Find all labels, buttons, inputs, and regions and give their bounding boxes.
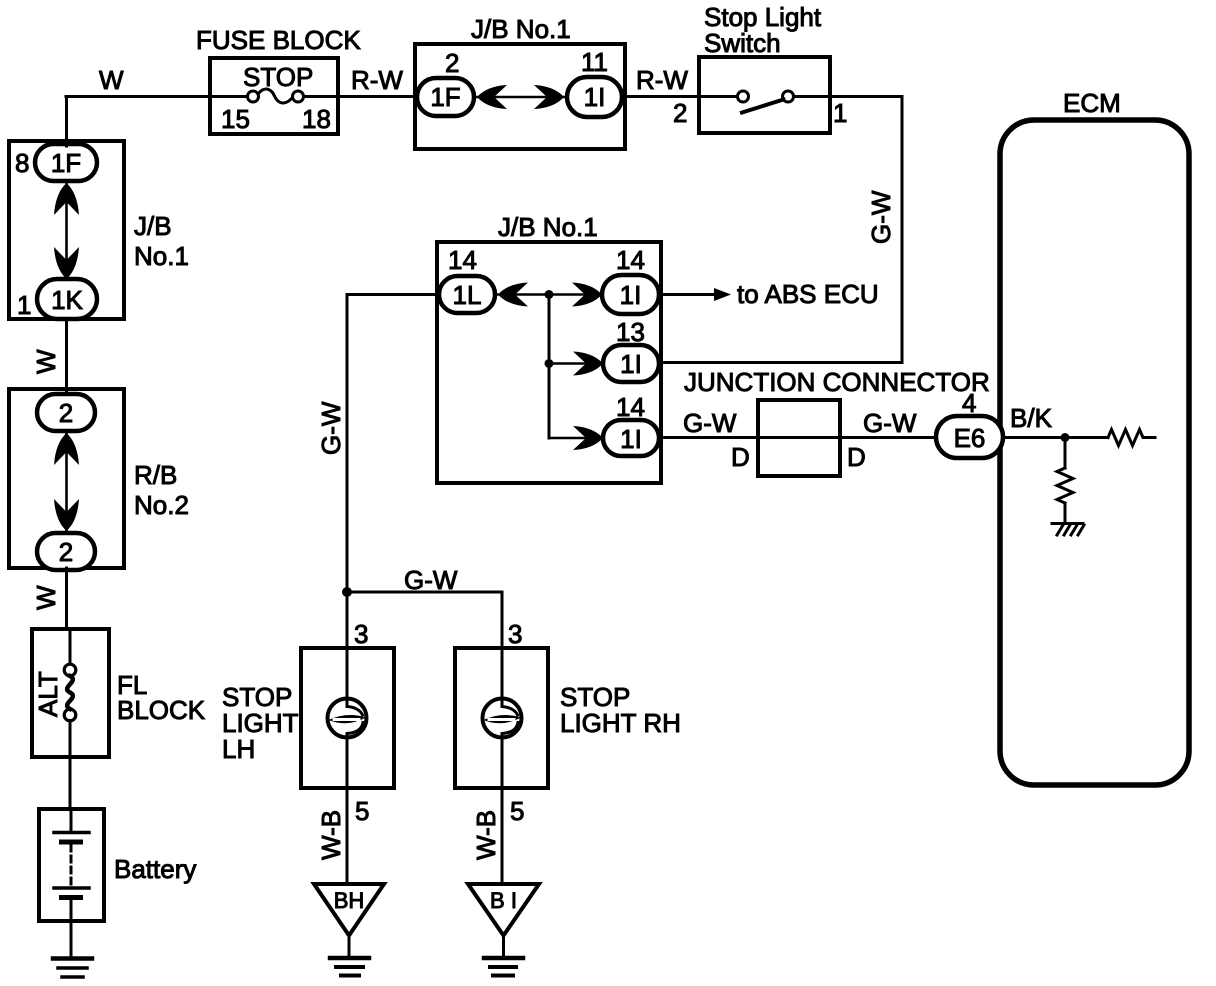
svg-text:1F: 1F	[51, 148, 81, 178]
arrow left chevron mid	[498, 283, 528, 307]
svg-text:No.1: No.1	[134, 241, 189, 271]
svg-text:14: 14	[448, 245, 477, 275]
svg-text:R-W: R-W	[351, 65, 403, 95]
connector 1L	[439, 276, 495, 313]
ECM box	[1000, 120, 1189, 785]
svg-text:J/B No.1: J/B No.1	[471, 14, 571, 44]
svg-text:1I: 1I	[584, 82, 606, 112]
svg-text:5: 5	[510, 796, 524, 826]
wire BH to ground	[348, 936, 351, 957]
triangle BH	[314, 884, 384, 936]
svg-text:2: 2	[445, 48, 459, 78]
wire R-W J/B to switch	[625, 95, 699, 98]
ground BI	[484, 956, 523, 961]
svg-text:W-B: W-B	[316, 810, 346, 860]
svg-text:14: 14	[616, 245, 645, 275]
svg-text:1: 1	[833, 98, 847, 128]
junction dot G-W branch	[342, 587, 352, 597]
svg-text:B/K: B/K	[1010, 403, 1053, 433]
junction dot ECM	[1061, 433, 1070, 442]
wire FL to battery	[69, 757, 72, 809]
svg-text:1K: 1K	[51, 285, 83, 315]
svg-text:LIGHT RH: LIGHT RH	[560, 708, 681, 738]
vertical bus in mid J/B	[548, 295, 551, 439]
connector 2 top	[37, 394, 95, 431]
svg-text:15: 15	[221, 104, 250, 134]
connector 1I row1	[602, 275, 659, 314]
bulb RH	[501, 648, 504, 700]
svg-text:G-W: G-W	[404, 565, 458, 595]
wire G-W branch horizontal	[347, 591, 502, 594]
svg-text:11: 11	[581, 47, 608, 77]
svg-text:1L: 1L	[453, 280, 482, 310]
connector 2 bottom	[37, 533, 95, 570]
svg-text:14: 14	[616, 392, 645, 422]
wire 1L to 1I row1	[495, 293, 602, 296]
wire to 1I row3	[549, 437, 603, 440]
svg-text:to ABS ECU: to ABS ECU	[737, 279, 879, 309]
fusible link symbol	[69, 629, 72, 664]
svg-text:ECM: ECM	[1063, 88, 1121, 118]
connector 1K	[37, 279, 97, 319]
vertical wire between 2 and 2	[65, 431, 68, 533]
vertical wire between 1F and 1K	[65, 181, 68, 281]
svg-text:Switch: Switch	[704, 28, 781, 58]
svg-text:J/B: J/B	[134, 211, 172, 241]
svg-text:1I: 1I	[620, 280, 642, 310]
svg-text:R/B: R/B	[134, 460, 177, 490]
svg-text:1I: 1I	[620, 424, 642, 454]
wire W vertical drop to J/B No.1 left	[65, 97, 68, 147]
arrow up chevron R/B	[54, 433, 79, 465]
svg-text:FUSE BLOCK: FUSE BLOCK	[196, 25, 361, 55]
wire BI to ground	[502, 936, 505, 957]
arrow right chevron	[534, 85, 564, 109]
wire R-W fuse to J/B	[338, 95, 417, 98]
stop light LH box	[301, 648, 394, 788]
svg-text:2: 2	[59, 537, 73, 567]
ground chassis ECM	[1052, 522, 1083, 525]
R/B No.2 box	[9, 389, 124, 568]
svg-text:E6: E6	[954, 423, 986, 453]
svg-text:3: 3	[354, 619, 368, 649]
arrow down chevron	[54, 247, 79, 279]
svg-text:J/B No.1: J/B No.1	[498, 212, 598, 242]
svg-text:1I: 1I	[620, 349, 642, 379]
svg-text:BH: BH	[334, 888, 365, 913]
svg-text:ALT: ALT	[33, 671, 63, 717]
switch symbol	[699, 95, 738, 98]
svg-text:3: 3	[508, 619, 522, 649]
wire W horizontal top-left	[66, 95, 210, 98]
wire battery to ground	[70, 921, 73, 957]
junction dot row2	[545, 359, 554, 368]
ground BH	[330, 956, 369, 961]
svg-text:No.2: No.2	[134, 490, 189, 520]
svg-text:5: 5	[355, 796, 369, 826]
arrow right chevron mid row3	[573, 426, 603, 450]
junction dot row1	[545, 290, 554, 299]
wire E6 into ECM	[1003, 436, 1108, 439]
connector 1I row3	[603, 420, 659, 456]
connector 1F	[417, 78, 474, 116]
wire to ABS ECU	[659, 293, 718, 296]
arrow down chevron R/B	[54, 499, 79, 531]
svg-text:STOP: STOP	[243, 62, 313, 92]
wire G-W vertical from switch	[901, 97, 904, 363]
svg-text:R-W: R-W	[636, 65, 688, 95]
svg-text:G-W: G-W	[683, 408, 737, 438]
resistor vertical	[1064, 438, 1067, 469]
fuse block box	[210, 58, 338, 134]
wire between 1F and 1I	[474, 96, 567, 99]
junction connector box	[758, 400, 840, 476]
wire W between R/B and FL	[65, 568, 68, 629]
wire switch to corner	[830, 95, 902, 98]
stop light switch box	[699, 57, 830, 133]
arrow up chevron	[54, 183, 79, 215]
J/B No.1 left box	[9, 141, 124, 319]
svg-text:Battery: Battery	[114, 854, 196, 884]
svg-text:D: D	[847, 442, 866, 472]
svg-text:13: 13	[616, 317, 645, 347]
fuse STOP symbol	[210, 95, 248, 98]
svg-text:BLOCK: BLOCK	[117, 695, 206, 725]
wire down to RH	[501, 592, 504, 648]
connector 1F left	[35, 144, 97, 181]
svg-text:W: W	[31, 349, 61, 374]
battery symbol	[70, 809, 73, 833]
svg-text:W: W	[99, 65, 124, 95]
wire down to LH	[346, 592, 349, 648]
svg-text:B I: B I	[490, 888, 517, 913]
ground battery	[53, 956, 92, 961]
wire W-B LH	[346, 788, 349, 884]
vertical G-W wire	[346, 295, 349, 593]
svg-text:8: 8	[15, 148, 29, 178]
svg-text:4: 4	[962, 388, 976, 418]
arrow right chevron mid row1	[572, 283, 602, 307]
svg-text:1F: 1F	[430, 82, 460, 112]
arrowhead to ABS	[714, 288, 731, 301]
bulb LH	[346, 648, 349, 700]
triangle BI	[468, 884, 539, 936]
svg-text:G-W: G-W	[866, 190, 896, 244]
svg-text:G-W: G-W	[316, 401, 346, 455]
svg-text:LH: LH	[222, 734, 255, 764]
J/B No.1 top box	[415, 44, 625, 149]
svg-text:W-B: W-B	[471, 810, 501, 860]
wire mid J/B row3 to junction connector	[659, 436, 936, 439]
svg-text:1: 1	[17, 290, 31, 320]
wire W between J/B and R/B	[65, 319, 68, 392]
svg-text:W: W	[31, 585, 61, 610]
J/B No.1 middle box	[437, 242, 661, 483]
svg-text:G-W: G-W	[863, 408, 917, 438]
stop light RH box	[455, 648, 548, 788]
svg-text:18: 18	[302, 104, 331, 134]
svg-text:D: D	[731, 442, 750, 472]
wire W-B RH	[501, 788, 504, 884]
resistor horizontal	[1108, 430, 1155, 446]
arrow right chevron mid row2	[573, 352, 603, 376]
svg-text:2: 2	[673, 98, 687, 128]
svg-text:JUNCTION CONNECTOR: JUNCTION CONNECTOR	[684, 367, 990, 397]
arrow left chevron	[477, 85, 507, 109]
wire horizontal into mid J/B 1I (13)	[661, 361, 902, 364]
FL BLOCK box	[32, 629, 109, 757]
connector 1I row2	[603, 345, 659, 382]
wire to 1I row2	[549, 362, 603, 365]
battery box	[39, 809, 104, 921]
wire G-W from 1L to left vertical	[347, 293, 439, 296]
connector E6	[936, 416, 1003, 458]
svg-text:2: 2	[59, 398, 73, 428]
connector 1I	[567, 77, 622, 117]
